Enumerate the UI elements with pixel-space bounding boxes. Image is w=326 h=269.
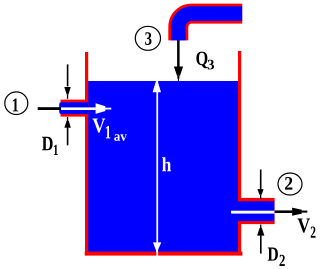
D2 lower arrow bbox=[257, 225, 264, 254]
water level h double arrow (white) bbox=[153, 81, 162, 258]
label D1 bbox=[42, 137, 58, 155]
supply line from node 1 to pipe P1 bbox=[38, 107, 61, 110]
V1av flow arrow (white) bbox=[60, 103, 111, 114]
label V2 bbox=[298, 219, 316, 238]
tank fluid bbox=[88, 81, 238, 252]
inlet pipe P1 bottom wall bbox=[61, 114, 89, 117]
D1 upper arrow bbox=[64, 64, 71, 98]
inlet pipe P1 top wall bbox=[61, 100, 89, 103]
node 1 circle bbox=[5, 92, 28, 115]
D1 lower arrow bbox=[64, 117, 70, 145]
label Q3 bbox=[196, 52, 214, 70]
supply elbow pipe outer red bbox=[178, 14, 242, 41]
label D2 bbox=[268, 248, 285, 267]
supply elbow pipe bore blue bbox=[178, 14, 242, 41]
tank left wall bbox=[85, 52, 88, 252]
outlet pipe P2 walls bbox=[238, 198, 275, 224]
pipe P2 centre stripe (white) bbox=[231, 211, 274, 214]
node 3 circle bbox=[135, 26, 160, 50]
Q3 flow arrow bbox=[174, 40, 183, 81]
V2 flow arrow bbox=[275, 208, 308, 216]
inlet pipe P1 bore bbox=[59, 102, 88, 114]
D2 upper arrow bbox=[257, 170, 263, 200]
label h bbox=[162, 157, 171, 171]
label V1av bbox=[92, 119, 126, 141]
tank bottom wall bbox=[85, 252, 243, 256]
tank right wall bbox=[238, 51, 241, 252]
node 2 circle bbox=[278, 173, 302, 195]
outlet pipe P2 bore bbox=[238, 201, 274, 221]
